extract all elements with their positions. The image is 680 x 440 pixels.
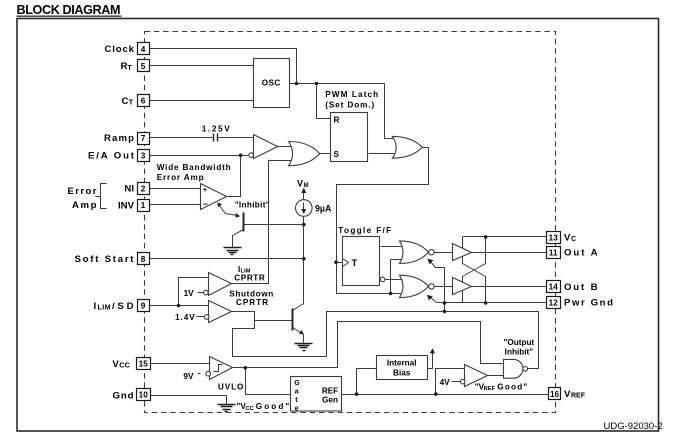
wire inhibit transistor emitter to ground [233, 230, 244, 248]
current limit comparator ILIM CPRTR [204, 273, 232, 296]
svg-text:1.25V: 1.25V [202, 124, 231, 133]
label Error Amp with brace [68, 184, 107, 212]
pin 1 INV [118, 200, 150, 212]
wire clock pin4 to OSC output node [150, 49, 297, 84]
svg-text:G: G [294, 380, 300, 387]
svg-text:4: 4 [141, 45, 146, 54]
node clock-OSC junction [295, 82, 299, 86]
node VREF bias tap [355, 392, 359, 396]
ground below shutdown transistor [295, 344, 313, 351]
node output inhibit line [443, 310, 447, 314]
label VM [297, 178, 309, 189]
wire toggle FF Q to upper NOR [381, 246, 405, 248]
svg-text:M: M [304, 183, 309, 189]
toggle flip flop box [343, 237, 385, 286]
node inhibit-rail crossing [443, 301, 447, 305]
arrowhead internal bias [430, 348, 435, 353]
wire inhibit arrow to lower NOR [430, 297, 437, 303]
transistor Q2 shutdown [292, 309, 294, 331]
svg-text:T: T [129, 100, 134, 107]
svg-text:Error Amp: Error Amp [157, 173, 204, 182]
node NOR blanking branch [389, 292, 393, 296]
svg-text:LIM: LIM [98, 305, 111, 312]
pin 13 Vc [547, 232, 577, 244]
wire 4V comparator output to NAND [488, 375, 504, 377]
NAND output inhibit [504, 359, 528, 378]
NOR gate A [400, 241, 435, 264]
svg-text:Good": Good" [497, 382, 527, 391]
wire Pwr Gnd rail pin12 [437, 302, 547, 304]
svg-text:+: + [203, 185, 208, 194]
VREF good comparator 4V [452, 365, 488, 387]
svg-text:1V: 1V [184, 289, 195, 298]
svg-text:C: C [571, 236, 576, 243]
PWM comparator [249, 135, 278, 159]
wire UVLO output to output inhibit NAND [233, 322, 504, 368]
svg-text:9: 9 [141, 302, 146, 311]
reference generator box with gate input [291, 377, 342, 413]
wire output inhibit vertical with gate arrows [430, 261, 445, 312]
svg-text:Gnd: Gnd [113, 390, 134, 401]
wire Gnd pin10 to ground [151, 396, 227, 405]
svg-text:6: 6 [141, 97, 146, 106]
node OSC output R branch [315, 82, 319, 86]
wire shutdown transistor base [255, 320, 293, 322]
wire driver rail vertical b [462, 291, 464, 303]
svg-text:9V: 9V [183, 372, 194, 381]
pin 8 Soft Start [75, 253, 150, 266]
label Output Inhibit [504, 338, 535, 357]
svg-text:NI: NI [124, 184, 134, 195]
wire capacitor to PWM comparator input [219, 137, 255, 139]
pin 2 NI [124, 183, 149, 195]
oscillator OSC [254, 59, 290, 108]
svg-text:5: 5 [141, 62, 146, 71]
svg-text:Good": Good" [256, 402, 290, 411]
OR gate after latch [392, 136, 422, 158]
pin 6 CT [122, 95, 150, 107]
ground below inhibit transistor [224, 248, 242, 255]
svg-text:Amp: Amp [72, 200, 97, 211]
pin 11 Out A [547, 247, 598, 259]
node UVLO output junction [244, 366, 248, 370]
wire NI pin2 to error amp [150, 188, 203, 190]
svg-text:CC: CC [245, 406, 254, 412]
label VREF Good [475, 382, 528, 392]
wire lower NOR output to driver B [435, 286, 453, 288]
wire shutdown comparator output loop to output inhibit line [232, 312, 539, 369]
output driver A [453, 244, 472, 261]
svg-text:1: 1 [141, 201, 146, 210]
svg-text:12: 12 [549, 298, 559, 307]
svg-text:8: 8 [141, 255, 146, 264]
wire error amp output vertical to E/A Out [227, 156, 241, 197]
svg-text:a: a [295, 389, 299, 396]
internal bias box [377, 356, 428, 380]
svg-text:/SD: /SD [112, 301, 134, 312]
svg-text:V: V [564, 389, 571, 400]
arrow inhibit bent pointer [217, 202, 240, 217]
svg-text:Inhibit": Inhibit" [505, 348, 534, 357]
PWM latch U-latch box [331, 113, 368, 162]
svg-text:CPRTR: CPRTR [234, 273, 265, 282]
svg-text:PWM Latch: PWM Latch [325, 90, 378, 99]
svg-text:R: R [121, 61, 128, 72]
wire internal bias up arrow [428, 351, 433, 369]
svg-text:Gen: Gen [322, 396, 338, 405]
wire 9uA source to soft start node and shutdown transistor [303, 217, 305, 305]
label Wide Bandwidth Error Amp [157, 163, 231, 182]
pin 12 Pwr Gnd [547, 297, 614, 309]
wire toggle FF Qbar to lower NOR [385, 279, 405, 281]
wire E/A Out pin3 line [150, 155, 249, 157]
svg-text:R: R [334, 115, 340, 124]
node VREF 4V tap [434, 392, 438, 396]
wire VREF tap to 4V comparator [436, 369, 465, 395]
svg-text:REF: REF [484, 386, 496, 392]
pin 16 VREF [549, 388, 586, 401]
svg-text:I: I [94, 301, 97, 312]
wire INV pin1 to error amp [150, 204, 203, 206]
wire Vcc pin15 to UVLO [151, 363, 211, 365]
svg-text:Ramp: Ramp [104, 133, 134, 144]
error amp U1 [201, 184, 227, 210]
node ILIM/SD branch [177, 304, 181, 308]
svg-text:e: e [295, 406, 299, 413]
svg-text:16: 16 [550, 390, 560, 399]
wire PWM latch output to big OR input [369, 153, 397, 155]
wire driver crossing b [463, 237, 486, 283]
capacitor 1.25V [214, 134, 218, 142]
node Pwr Gnd rail junction [484, 301, 488, 305]
OR gate at latch S input [289, 142, 320, 166]
wire UVLO output to reference gate [246, 368, 291, 395]
svg-text:Error: Error [68, 186, 97, 197]
svg-text:Toggle F/F: Toggle F/F [338, 226, 391, 235]
shutdown comparator [204, 301, 231, 323]
wire upper NOR output to driver A [435, 252, 453, 254]
wire 1.4V reference stub [197, 316, 205, 318]
wire ILIM/SD branch to current limit comparator [179, 278, 211, 306]
svg-text:2: 2 [141, 185, 146, 194]
svg-text:"Output: "Output [504, 338, 535, 347]
svg-text:V: V [297, 178, 303, 188]
svg-text:15: 15 [139, 360, 149, 369]
wire driver rail vertical a [462, 237, 464, 249]
svg-text:11: 11 [549, 248, 558, 257]
svg-text:1.4V: 1.4V [175, 313, 195, 322]
wire current limit comparator output riser to OR input [232, 161, 295, 284]
label ILIM CPRTR [234, 265, 265, 283]
wire OSC output down to big OR top input [385, 84, 397, 139]
wire inhibit transistor collector [244, 224, 304, 226]
svg-text:REF: REF [322, 387, 338, 396]
ground at Gnd pin [218, 405, 236, 412]
wire 9V reference stub [198, 373, 201, 375]
node E/A Out junction [239, 153, 243, 157]
wire blanking branch to upper NOR input [391, 260, 405, 294]
wire Ramp pin7 to capacitor [150, 137, 213, 139]
wire OSC output [289, 83, 385, 85]
svg-text:BLOCK DIAGRAM: BLOCK DIAGRAM [17, 3, 121, 17]
svg-text:3: 3 [141, 151, 146, 160]
pin 15 Vcc [112, 358, 150, 370]
transistor Q1 inhibit [243, 213, 245, 232]
svg-text:4V: 4V [440, 378, 451, 387]
UVLO schmitt buffer [206, 357, 233, 380]
label PWM Latch (Set Dom.) [325, 90, 378, 109]
arrowhead inhibit to lower NOR [427, 295, 433, 301]
svg-text:Internal: Internal [387, 359, 417, 368]
wire 1V reference stub [198, 292, 204, 294]
svg-text:Pwr Gnd: Pwr Gnd [564, 298, 613, 309]
wire VREF tap to internal bias [357, 369, 377, 395]
svg-text:7: 7 [141, 134, 146, 143]
pin 10 Gnd [113, 389, 151, 402]
svg-text:Wide Bandwidth: Wide Bandwidth [157, 163, 231, 172]
svg-text:E/A Out: E/A Out [88, 151, 135, 162]
dashed IC boundary box [145, 32, 556, 413]
svg-text:10: 10 [139, 391, 149, 400]
pin 5 RT [121, 60, 150, 73]
wire Out B line pin14 [472, 286, 547, 288]
pin 9 ILIM/SD [94, 300, 150, 312]
svg-text:UDG-92030-2: UDG-92030-2 [604, 421, 663, 432]
wire PWM comparator output to OR [278, 146, 293, 148]
svg-text:T: T [128, 65, 133, 72]
svg-text:−: − [203, 199, 208, 209]
wire Soft Start pin8 [150, 258, 304, 260]
current source 9uA [296, 188, 313, 217]
node inhibit collector junction [302, 223, 306, 227]
wire VREF line pin16 [342, 394, 549, 396]
svg-text:C: C [122, 96, 129, 107]
svg-text:Clock: Clock [105, 44, 135, 55]
wire toggle FF T input [337, 262, 343, 264]
wire shutdown transistor collector [293, 304, 304, 311]
svg-text:REF: REF [571, 393, 586, 400]
svg-text:Out B: Out B [564, 282, 598, 293]
label Vcc Good [237, 402, 290, 412]
pin 3 E/A Out [88, 150, 150, 162]
node soft start junction [302, 257, 306, 261]
svg-text:Out A: Out A [564, 248, 598, 259]
wire big OR output routing to toggle FF and NOR blanking [337, 148, 429, 294]
arrowhead inhibit to upper NOR [427, 259, 433, 265]
svg-text:OSC: OSC [262, 79, 281, 88]
svg-text:Soft Start: Soft Start [75, 254, 135, 265]
svg-text:CC: CC [119, 361, 130, 370]
svg-text:9µA: 9µA [315, 203, 332, 213]
svg-text:CPRTR: CPRTR [236, 298, 268, 307]
svg-text:"Inhibit": "Inhibit" [235, 200, 270, 209]
svg-text:S: S [334, 150, 340, 159]
wire Vc rail pin13 [463, 236, 547, 238]
wire Out A line pin11 [472, 252, 547, 254]
arrowhead shutdown emitter [299, 330, 304, 334]
label Shutdown CPRTR [229, 289, 273, 307]
wire OR output to latch S input [320, 153, 331, 155]
svg-text:INV: INV [118, 200, 135, 211]
title BLOCK DIAGRAM [17, 3, 122, 17]
pin 7 Ramp [104, 133, 150, 145]
svg-text:14: 14 [549, 283, 559, 292]
node toggle T input [334, 260, 338, 264]
svg-text:UVLO: UVLO [218, 382, 244, 391]
wire OSC output to PWM latch R input [317, 84, 331, 119]
svg-text:T: T [352, 258, 358, 269]
wire RT pin5 to OSC [150, 65, 254, 67]
output driver B [453, 278, 472, 295]
wire driver crossing a [463, 257, 486, 303]
svg-text:(Set Dom.): (Set Dom.) [325, 100, 374, 109]
wire CT pin6 to OSC [150, 100, 254, 102]
wire ILIM/SD pin9 [150, 305, 211, 307]
svg-text:Bias: Bias [393, 369, 411, 378]
node Vc rail junction [484, 235, 488, 239]
wire shutdown transistor emitter [293, 328, 304, 343]
svg-text:13: 13 [549, 233, 559, 242]
pin 4 Clock [105, 43, 150, 56]
svg-text:V: V [564, 233, 571, 244]
NOR gate B [400, 275, 435, 297]
pin 14 Out B [547, 281, 598, 293]
